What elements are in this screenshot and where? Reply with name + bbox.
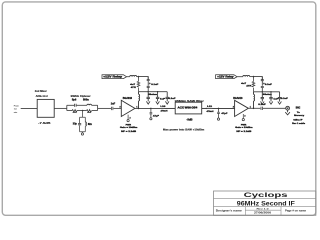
ground C9 — [150, 118, 152, 120]
ground C10 — [217, 118, 219, 120]
wire L6 to amp U3 — [212, 107, 234, 109]
ground amp U3 — [242, 119, 244, 121]
svg-text:96MHz Second IF: 96MHz Second IF — [237, 200, 295, 207]
wire bias rail A — [139, 91, 168, 93]
capacitor C4 value 0.1uF — [151, 84, 159, 86]
amplifier U3 BGA616 — [235, 100, 249, 116]
node rail A drop 2 — [157, 91, 158, 92]
amp U2 note PWR — [126, 125, 132, 127]
capacitor C14 value 1uF — [273, 98, 279, 100]
amp U2 note gain — [120, 127, 137, 129]
svg-text:1nF: 1nF — [111, 102, 116, 105]
wire C3 to amp U2 — [113, 107, 121, 109]
svg-text:Max power into SAW +10dBm: Max power into SAW +10dBm — [163, 129, 204, 132]
svg-text:NF = 2.2dB: NF = 2.2dB — [236, 131, 252, 133]
capacitor C3 value 1nF — [111, 102, 116, 105]
inductor L1 value 560n — [83, 99, 89, 102]
svg-text:BGA616: BGA616 — [123, 97, 133, 100]
svg-text:2: 2 — [129, 117, 130, 119]
svg-text:Rev 1.0: Rev 1.0 — [257, 208, 270, 210]
rail A label 68ohm — [148, 94, 157, 96]
connector note Rev 1 cable — [292, 123, 306, 125]
wire SAW to L6 — [202, 107, 207, 109]
svg-text:96MHz SAW filter: 96MHz SAW filter — [175, 100, 204, 103]
amp U3 note gain — [235, 127, 252, 129]
SAW filter loss -3dB — [187, 120, 193, 122]
svg-text:68ohm: 68ohm — [148, 94, 157, 96]
rail B label 68ohm — [263, 94, 272, 96]
node pre-SAW shunt — [150, 108, 152, 110]
svg-text:2: 2 — [244, 115, 245, 117]
svg-text:1st: 1st — [14, 108, 17, 111]
connector label BNC — [296, 108, 301, 110]
SAW filter part ACX W96-D54 — [178, 107, 199, 110]
svg-text:Gain = 19dBm: Gain = 19dBm — [120, 127, 137, 129]
resistor R4 value 47R — [246, 84, 252, 87]
capacitor C5 — [147, 86, 150, 91]
svg-text:ACX W96-D54: ACX W96-D54 — [178, 107, 199, 110]
wire diplexer bottom mid — [77, 110, 87, 112]
node post-SAW shunt — [218, 108, 220, 110]
power flag +12V Relay B — [216, 75, 238, 79]
wire input to mixer — [21, 107, 38, 109]
svg-text:Mercury: Mercury — [294, 115, 305, 117]
capacitor C1 value 5p6 — [72, 99, 77, 102]
svg-text:Page # on name: Page # on name — [285, 210, 307, 213]
svg-text:BGA616: BGA616 — [233, 97, 243, 100]
wire node B to cap column — [254, 77, 263, 81]
svg-text:47pF: 47pF — [153, 114, 160, 117]
svg-text:27/06/2006: 27/06/2006 — [254, 212, 272, 214]
svg-text:1uF: 1uF — [160, 98, 166, 100]
cell Page # on name — [285, 210, 307, 213]
svg-text:0dBm IF: 0dBm IF — [293, 120, 303, 122]
mixer part ADE-1LH — [36, 95, 48, 98]
connector J1 — [286, 106, 290, 110]
amp U3 label BGA616 — [233, 97, 243, 100]
capacitor C2 — [78, 124, 81, 125]
mixer label 2nd Mixer — [35, 90, 47, 93]
svg-text:0.1uF: 0.1uF — [258, 104, 266, 106]
wire amp U3 ground pin — [242, 114, 244, 119]
ground C15 — [278, 102, 282, 105]
inductor L2 value 82n — [88, 123, 93, 126]
wire node A to cap column — [139, 77, 149, 80]
svg-text:3: 3 — [233, 106, 234, 108]
node SAW output — [206, 108, 207, 109]
capacitor C4 — [147, 77, 150, 86]
inductor L5 — [151, 107, 175, 109]
diplexer title 96MHz Diplexer — [71, 95, 91, 98]
svg-text:ADE-1LH: ADE-1LH — [36, 95, 48, 98]
node rail A drop 1 — [148, 91, 149, 92]
svg-text:Gain = 19dBm: Gain = 19dBm — [235, 127, 252, 129]
capacitor C9 — [150, 108, 153, 117]
capacitor C7 value 1uF — [160, 98, 166, 100]
ground connector J1 — [285, 110, 290, 115]
inductor L3 choke — [130, 75, 137, 76]
svg-text:470nH: 470nH — [207, 110, 214, 113]
wire diplexer output — [98, 107, 111, 109]
svg-text:0.1uF: 0.1uF — [151, 84, 159, 86]
capacitor C6 — [147, 92, 150, 102]
ground C7 — [156, 101, 160, 104]
amp U3 note NF — [236, 131, 252, 133]
diplexer left junction — [66, 105, 68, 110]
inductor L5 value 470nH — [161, 110, 168, 113]
wire shunt tank stem — [80, 111, 86, 133]
inductor L8 bias feed — [254, 92, 255, 109]
wire diplexer bottom right — [92, 110, 98, 112]
node diplexer shunt — [82, 110, 84, 112]
svg-text:NF = 2.2dB: NF = 2.2dB — [121, 131, 137, 133]
title block frame — [214, 191, 316, 215]
connector note 0dBm IF — [293, 120, 303, 122]
wire mixer to diplexer — [54, 107, 67, 109]
svg-text:0.1uF: 0.1uF — [169, 98, 177, 100]
resistor R4 — [252, 77, 255, 92]
capacitor C8 — [166, 92, 169, 102]
title text Cyclops — [244, 192, 289, 199]
mixer loss label -7.5dB — [38, 122, 51, 125]
pin 1 amp U2 — [136, 106, 137, 108]
inductor L6 name — [207, 106, 213, 108]
svg-text:0.1uF: 0.1uF — [265, 84, 273, 86]
svg-text:Rev 1 cable: Rev 1 cable — [292, 123, 306, 125]
amplifier U2 BGA616 — [121, 100, 135, 116]
svg-text:-7.5dB: -7.5dB — [38, 122, 51, 125]
svg-text:82n: 82n — [88, 123, 93, 126]
wire diplexer top right — [92, 104, 98, 106]
amp U2 note NF — [121, 131, 137, 133]
polarity mark C11 — [263, 83, 265, 85]
mixer U1 box — [37, 99, 54, 117]
inductor L7 choke — [243, 75, 250, 76]
wire diplexer bottom left — [67, 110, 72, 112]
node amp U3 output bias — [253, 108, 255, 110]
inductor L5 name — [160, 106, 166, 108]
ground C6 — [146, 101, 150, 104]
resistor R3 — [137, 77, 140, 92]
node amp U2 output bias — [138, 108, 140, 110]
polarity mark C4 — [149, 83, 151, 85]
wire C16 to connector — [263, 107, 286, 109]
svg-text:3: 3 — [119, 106, 120, 108]
capacitor C1 — [75, 104, 77, 107]
capacitor C16 value 0.1uF — [258, 104, 266, 106]
connector note To — [297, 112, 301, 114]
resistor R3 value 47R — [130, 83, 136, 89]
SAW filter title 96MHz SAW filter — [175, 100, 204, 103]
note max power — [163, 129, 204, 132]
inductor L7 value 4u7 — [241, 82, 247, 85]
svg-text:+12V Relay: +12V Relay — [103, 77, 123, 79]
wire choke to node B — [250, 76, 254, 78]
capacitor C7 — [156, 92, 159, 102]
capacitor C15 value 0.1uF — [281, 98, 289, 100]
ground C14 — [269, 102, 273, 105]
wire flag A to choke — [127, 76, 130, 78]
connector note Mercury — [294, 115, 305, 117]
node B bias — [253, 76, 255, 78]
capacitor C10 value 47pF — [221, 112, 228, 115]
svg-text:+12V Relay: +12V Relay — [217, 77, 234, 79]
svg-text:47R: 47R — [246, 84, 252, 87]
subtitle text 96MHz Second IF — [237, 200, 295, 207]
ground C8 — [165, 101, 169, 104]
svg-text:From: From — [14, 105, 19, 107]
wire flag B to choke — [237, 76, 243, 78]
node A bias — [138, 76, 140, 78]
wire diplexer top mid — [77, 104, 87, 106]
wire amp U2 ground pin — [127, 115, 129, 120]
diplexer right junction — [97, 105, 99, 110]
capacitor C15 — [278, 92, 281, 102]
svg-text:560n: 560n — [83, 99, 89, 102]
svg-text:Cyclops: Cyclops — [244, 192, 289, 199]
svg-text:33p: 33p — [73, 123, 78, 126]
svg-text:0.1uF: 0.1uF — [281, 98, 289, 100]
wire amp U2 output — [135, 107, 151, 109]
capacitor C13 — [261, 92, 264, 102]
cell date 27/06/2006 — [254, 212, 272, 214]
amp U3 note PWR — [241, 125, 247, 127]
svg-text:5p6: 5p6 — [72, 99, 77, 102]
resistor R2 — [87, 110, 92, 113]
power flag +12V Relay A — [102, 75, 127, 79]
resistor R1 — [72, 110, 77, 113]
svg-text:BNC: BNC — [296, 108, 301, 110]
cell Rev 1.0 — [257, 208, 270, 210]
ground diplexer tank — [81, 133, 83, 135]
pin 1 amp U3 — [250, 106, 251, 108]
wire choke to node A — [137, 76, 139, 78]
svg-text:-3dB: -3dB — [187, 120, 193, 122]
inductor L4 bias feed — [139, 92, 140, 109]
node rail B drop 2 — [270, 91, 271, 92]
input net label (faint) — [14, 105, 19, 113]
node rail B drop 1 — [262, 91, 263, 92]
svg-text:2nd Mixer: 2nd Mixer — [35, 90, 47, 93]
svg-text:Designer's name: Designer's name — [216, 209, 243, 212]
capacitor C10 — [217, 108, 220, 118]
pin 3 amp U3 — [233, 106, 234, 108]
capacitor C11 value 0.1uF — [265, 84, 273, 86]
wire bias rail B — [254, 91, 280, 93]
svg-text:68ohm: 68ohm — [263, 94, 272, 96]
svg-text:96MHz Diplexer: 96MHz Diplexer — [71, 95, 91, 98]
ground amp U2 — [127, 120, 129, 122]
ground C13 — [261, 102, 265, 105]
wire amp U3 output — [248, 107, 260, 109]
amp U2 label BGA616 — [123, 97, 133, 100]
svg-text:47pF: 47pF — [221, 112, 228, 115]
inductor L6 value 470nH — [207, 110, 214, 113]
capacitor C14 — [269, 92, 272, 102]
capacitor C2 value 33p — [73, 123, 78, 126]
svg-text:47R: 47R — [131, 86, 137, 89]
inductor L6 — [202, 107, 235, 109]
pin 3 amp U2 — [119, 106, 120, 108]
capacitor C11 — [261, 77, 264, 86]
pin 2 amp U3 — [244, 115, 245, 117]
capacitor C16 — [261, 107, 262, 110]
wire diplexer top left — [67, 104, 74, 106]
capacitor C12 — [261, 86, 264, 91]
capacitor C9 value 47pF — [153, 114, 160, 117]
inductor L1 — [87, 104, 92, 105]
wire L5 to SAW — [165, 107, 176, 109]
capacitor C8 value 0.1uF — [169, 98, 177, 100]
inductor L2 — [85, 122, 86, 126]
cell Designer's name — [216, 209, 243, 212]
capacitor C3 — [112, 107, 113, 110]
pin 2 amp U2 — [129, 117, 130, 119]
SAW filter FL1 box — [175, 102, 202, 114]
svg-text:470nH: 470nH — [161, 110, 168, 113]
